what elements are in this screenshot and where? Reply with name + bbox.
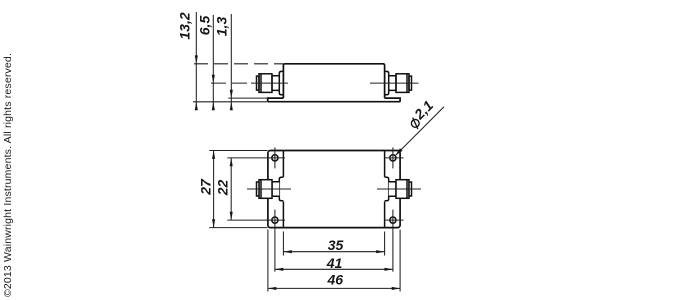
left connector (side view) cap bbox=[257, 76, 260, 90]
hole bottom-right bbox=[390, 217, 396, 223]
callout text diameter 2,1 bbox=[404, 97, 437, 130]
left connector (bottom view) center line bbox=[247, 188, 291, 190]
right connector (side view) center line bbox=[370, 82, 419, 84]
dimension line 1,3 bbox=[230, 14, 232, 110]
left connector (bottom view) cap bbox=[257, 182, 260, 196]
right connector (bottom view) cap bbox=[409, 182, 412, 196]
leader line diameter 2,1 bbox=[396, 107, 444, 155]
dimension line 35 bbox=[283, 251, 384, 253]
right connector (bottom view) bell bbox=[385, 177, 389, 200]
right connector (side view) barrel bbox=[396, 74, 409, 93]
svg-text:46: 46 bbox=[327, 272, 344, 288]
left connector (bottom view) barrel inner line bbox=[260, 180, 262, 199]
dimension line 27 bbox=[213, 151, 215, 228]
svg-text:©2013 Wainwright Instruments.: ©2013 Wainwright Instruments. All rights… bbox=[2, 53, 14, 297]
left connector (bottom view) neck bbox=[272, 182, 279, 197]
left connector (side view) neck bbox=[272, 76, 279, 91]
right connector (bottom view) barrel inner line bbox=[406, 180, 408, 199]
svg-text:13,2: 13,2 bbox=[177, 12, 193, 39]
right connector (bottom view) neck bbox=[389, 182, 396, 197]
svg-text:41: 41 bbox=[326, 255, 343, 271]
extension lines 35 bbox=[282, 232, 284, 256]
extension line body top (dashed) bbox=[194, 63, 283, 65]
left end strip line bbox=[282, 151, 284, 228]
right connector (side view) neck bbox=[389, 76, 396, 91]
svg-text:6,5: 6,5 bbox=[197, 16, 213, 36]
extension line connector axis (dashed) bbox=[211, 82, 251, 84]
svg-text:1,3: 1,3 bbox=[214, 17, 230, 37]
extension line plate bottom baseline bbox=[193, 101, 267, 103]
dimension line 46 bbox=[268, 287, 400, 289]
left connector (side view) barrel inner line bbox=[260, 74, 262, 93]
left connector (side view) center line bbox=[251, 82, 288, 84]
right connector (side view) bell bbox=[385, 71, 389, 94]
base plate outline (bottom view) bbox=[268, 151, 400, 228]
right connector (bottom view) barrel bbox=[396, 180, 409, 199]
base plate (side view) bbox=[268, 98, 401, 102]
dimension line 22 bbox=[230, 158, 232, 220]
svg-text:35: 35 bbox=[328, 237, 344, 253]
extension lines 46 bbox=[267, 230, 269, 292]
extension line rect top bbox=[209, 150, 267, 152]
dimension line 41 bbox=[275, 268, 393, 270]
dimension line 6,5 bbox=[212, 15, 214, 110]
dimension line 13,2 bbox=[195, 12, 197, 110]
extension line rect bottom bbox=[209, 227, 267, 229]
left connector (side view) bell bbox=[279, 71, 283, 94]
hole top-left bbox=[272, 155, 278, 161]
extension line plate top bbox=[228, 97, 267, 99]
hole top-right bbox=[390, 155, 396, 161]
left connector (side view) barrel bbox=[259, 74, 272, 93]
right connector (side view) barrel inner line bbox=[406, 74, 408, 93]
extension lines 41 bbox=[274, 231, 276, 272]
right connector (side view) cap bbox=[409, 76, 412, 90]
body box (side view) bbox=[283, 64, 384, 98]
right end strip line bbox=[384, 151, 386, 228]
right connector (bottom view) center line bbox=[377, 188, 421, 190]
svg-text:27: 27 bbox=[198, 178, 214, 196]
left connector (bottom view) bell bbox=[279, 177, 283, 200]
svg-text:22: 22 bbox=[215, 180, 231, 197]
hole bottom-left bbox=[272, 217, 278, 223]
left connector (bottom view) barrel bbox=[259, 180, 272, 199]
